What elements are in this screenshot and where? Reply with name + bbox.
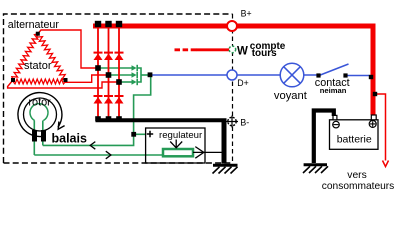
svg-text:alternateur: alternateur: [8, 19, 60, 31]
svg-text:W: W: [237, 46, 248, 58]
svg-text:D+: D+: [237, 78, 249, 88]
svg-text:tours: tours: [252, 48, 277, 59]
svg-text:consommateurs: consommateurs: [322, 181, 394, 191]
svg-text:voyant: voyant: [274, 90, 308, 102]
svg-text:B+: B+: [241, 8, 252, 18]
svg-text:batterie: batterie: [337, 134, 372, 146]
svg-text:B-: B-: [240, 118, 249, 128]
svg-text:stator: stator: [24, 60, 52, 72]
svg-text:balais: balais: [52, 131, 87, 145]
svg-text:rotor: rotor: [28, 97, 51, 109]
svg-text:regulateur: regulateur: [159, 130, 203, 141]
svg-text:vers: vers: [347, 170, 366, 181]
svg-text:neiman: neiman: [320, 86, 347, 95]
